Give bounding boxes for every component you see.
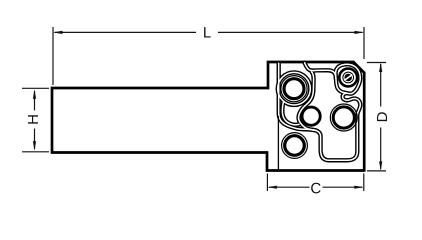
svg-text:D: D (374, 111, 391, 122)
svg-text:H: H (25, 114, 42, 125)
svg-text:L: L (203, 24, 211, 41)
svg-text:C: C (310, 180, 321, 197)
